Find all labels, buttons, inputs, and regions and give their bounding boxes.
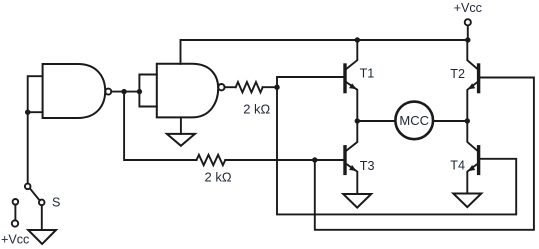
wire +Vcc throw [14, 205, 16, 221]
svg-text:T3: T3 [360, 159, 375, 173]
+Vcc terminal circle (bottom left) [12, 220, 18, 226]
node U1 input tie [25, 110, 30, 115]
transistor T3 bar [343, 145, 346, 175]
ground under switch [28, 230, 56, 244]
svg-text:+Vcc: +Vcc [1, 232, 29, 246]
wire U2 ground pin [180, 117, 182, 133]
svg-text:MCC: MCC [399, 113, 429, 128]
node +Vcc / T2 collector at rail [465, 37, 470, 42]
resistor R2 [197, 155, 226, 165]
svg-text:T2: T2 [450, 67, 465, 81]
switch S pole contact [25, 184, 31, 190]
transistor T2 collector [467, 40, 477, 69]
wire cross-couple B: T2 base right, down, left, up to T3 base node [315, 78, 534, 230]
node T3 base branch [312, 157, 317, 162]
transistor T1 collector [347, 40, 358, 69]
node R1 output [274, 85, 279, 90]
wire MCC right [433, 120, 467, 122]
transistor T3 collector [347, 121, 358, 150]
resistor R1 [236, 82, 263, 92]
switch S arm [30, 188, 40, 200]
wire U2 output to resistor R1 [225, 86, 236, 88]
svg-text:2 kΩ: 2 kΩ [243, 101, 270, 116]
svg-text:T4: T4 [450, 159, 465, 173]
transistor T4 bar [477, 145, 480, 175]
wire NAND U1 input tie going down to switch [28, 76, 43, 183]
ground under T3 [343, 194, 371, 208]
wire NAND U2 input tie [139, 75, 156, 107]
switch S throw contact [39, 200, 45, 206]
ground under U2 [167, 134, 195, 146]
transistor T1 emitter arrow [349, 83, 357, 89]
NAND U2 output bubble [218, 84, 224, 90]
svg-text:+Vcc: +Vcc [454, 1, 482, 15]
transistor T2 bar [477, 63, 480, 93]
node motor left [355, 118, 360, 123]
transistor T4 emitter [467, 164, 477, 193]
node U1 output branch [121, 89, 126, 94]
transistor T1 emitter [347, 83, 358, 122]
wire branch down to resistor R2 [124, 92, 196, 160]
+Vcc throw contact circle (bottom left) [13, 199, 19, 205]
node motor right [465, 118, 470, 123]
wire MCC left [357, 120, 395, 122]
svg-text:2 kΩ: 2 kΩ [205, 170, 232, 185]
transistor T2 emitter arrow [468, 83, 476, 89]
transistor T1 bar [343, 63, 346, 93]
wire Vcc rail with drop to U2 Vcc pin [181, 40, 469, 64]
wire node to T1 base [277, 77, 343, 87]
motor MCC circle [395, 102, 433, 140]
ground under T4 [453, 194, 481, 208]
wire R2 to T3 base [225, 159, 343, 161]
node T1 collector at rail [355, 37, 360, 42]
wire cross-couple A: node down, right, up to T4 base [277, 87, 516, 214]
svg-text:S: S [52, 195, 60, 209]
node U2 input [137, 89, 142, 94]
transistor T2 emitter [467, 83, 477, 122]
transistor T4 emitter arrow [468, 165, 476, 171]
wire switch to ground [41, 205, 43, 230]
wire U1 output to U2 input [111, 91, 139, 93]
svg-text:T1: T1 [360, 67, 375, 81]
NAND U1 output bubble [105, 89, 111, 95]
NAND gate U2 body [157, 64, 218, 118]
transistor T3 emitter arrow [349, 165, 357, 171]
+Vcc terminal circle (top right) [465, 19, 471, 25]
wire +Vcc stub [467, 25, 469, 40]
wire R1 to node [263, 86, 277, 88]
transistor T4 collector [467, 121, 477, 150]
NAND gate U1 body [43, 64, 106, 118]
transistor T3 emitter [347, 164, 358, 194]
